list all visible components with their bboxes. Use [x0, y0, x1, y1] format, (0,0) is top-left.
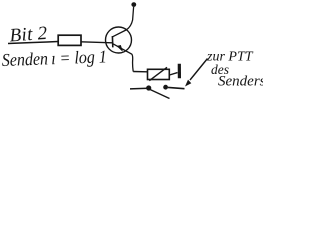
svg-text:Senders: Senders — [218, 74, 263, 90]
transistor Q1 — [106, 7, 134, 72]
wire resistor to transistor base — [81, 42, 112, 43]
switch contact dot left — [146, 85, 151, 90]
collector terminal dot — [131, 2, 136, 7]
wire relay to terminal bar — [170, 73, 178, 75]
resistor R1 — [58, 35, 81, 45]
wire emitter to relay coil — [133, 71, 147, 73]
switch contact dot right — [163, 85, 168, 90]
annotation arrow to PTT — [190, 59, 208, 81]
switch: left feed wire — [130, 87, 148, 90]
switch lever — [150, 89, 170, 98]
relay coil K1 — [148, 67, 170, 80]
svg-text:Senden ı = log 1: Senden ı = log 1 — [1, 46, 107, 70]
switch output wire — [168, 87, 185, 88]
wire Bit2 underline into resistor — [8, 42, 58, 44]
terminal bar — [178, 64, 181, 78]
